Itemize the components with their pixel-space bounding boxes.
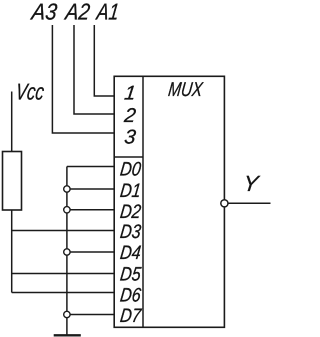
wire D1 input [67,188,114,190]
svg-text:Y: Y [242,171,262,196]
wire D5 input [12,273,115,275]
wire A2 to pin 2 [74,25,114,114]
wire D2 input [67,209,114,211]
wire output Y [228,202,271,204]
svg-text:D6: D6 [119,285,142,307]
svg-text:D2: D2 [119,201,142,223]
svg-text:D7: D7 [119,305,143,327]
wire D4 input [67,251,114,253]
svg-text:D4: D4 [119,242,142,264]
svg-text:D5: D5 [119,264,142,286]
junction dot D2 [64,207,70,213]
ground [54,334,81,336]
svg-text:D3: D3 [119,221,142,243]
wire resistor bottom vertical [11,210,13,293]
junction dot D4 [64,249,70,255]
junction dot D1 [64,186,70,192]
resistor R1 [3,152,22,211]
wire A1 to pin 1 [94,25,114,96]
mux pin column line [142,76,144,327]
wire D0 input [67,166,114,168]
mux pin section divider [114,156,143,158]
svg-text:A2: A2 [62,0,91,25]
svg-text:A1: A1 [94,0,121,25]
wire A3 to pin 3 [52,25,114,133]
wire D7 input [67,314,114,316]
svg-text:D1: D1 [119,180,142,202]
wire Vcc to resistor [11,92,13,152]
output inverter circle [221,200,228,207]
wire D3 input [12,230,115,232]
svg-text:Vcc: Vcc [14,79,46,105]
wire D6 input [12,292,115,294]
svg-text:MUX: MUX [167,79,205,101]
wire ground rail [66,167,68,336]
mux U1 body [114,76,224,327]
svg-text:D0: D0 [119,159,142,181]
svg-text:A3: A3 [29,0,59,25]
junction dot D7 [64,311,70,317]
